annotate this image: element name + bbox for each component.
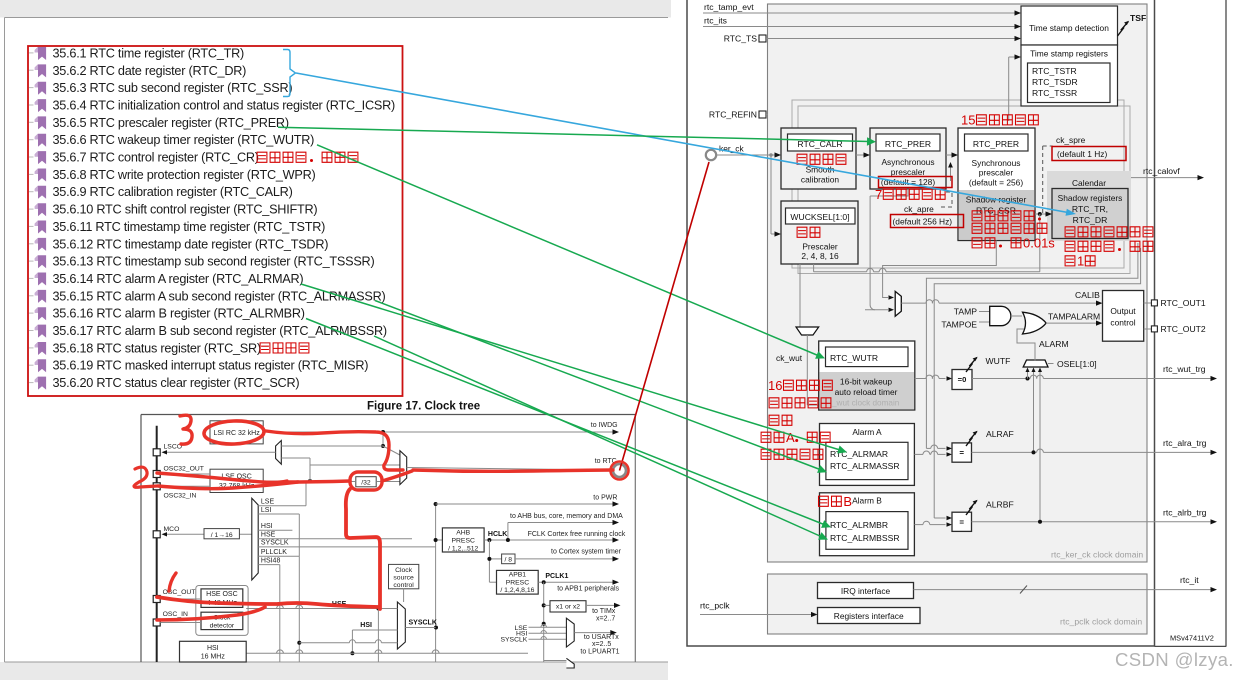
svg-text:35.6.1 RTC time register (RTC_: 35.6.1 RTC time register (RTC_TR) <box>53 46 245 60</box>
red note 比秒更精确的 <box>972 223 1047 233</box>
svg-text:MSv47411V2: MSv47411V2 <box>1170 634 1214 643</box>
wut clock mux <box>895 291 901 316</box>
wire HSI into mux <box>299 630 397 655</box>
wire to PWR <box>436 495 619 507</box>
red note 16位唤醒自 <box>768 378 832 393</box>
LSE OSC box <box>210 469 263 492</box>
RTC_TSTR/TSDR/TSSR box <box>1028 63 1111 103</box>
signal rtc_tamp_evt <box>703 2 1021 16</box>
label to IWDG <box>591 422 618 429</box>
svg-text:=0: =0 <box>958 375 967 384</box>
bookmark icon row 5 <box>29 116 46 129</box>
svg-text:OSEL[1:0]: OSEL[1:0] <box>1057 359 1097 369</box>
bookmark icon row 15 <box>29 290 46 303</box>
MCO mux <box>252 498 258 580</box>
svg-text:to PWR: to PWR <box>593 495 617 502</box>
svg-text:ALRBF: ALRBF <box>986 500 1014 510</box>
list row 1 text <box>53 46 245 60</box>
red trace LSE horizontal <box>413 470 613 471</box>
label to RTC <box>595 458 617 465</box>
svg-text:35.6.10 RTC shift control regi: 35.6.10 RTC shift control register (RTC_… <box>53 203 318 217</box>
USART mux <box>566 618 574 647</box>
svg-text:35.6.7 RTC control register (R: 35.6.7 RTC control register (RTC_CR) <box>53 151 259 165</box>
list row 16 text <box>53 307 305 321</box>
pin label OSC_OUT <box>163 589 196 596</box>
OSEL mux <box>1023 359 1096 369</box>
svg-text:35.6.13 RTC timestamp sub seco: 35.6.13 RTC timestamp sub second registe… <box>53 255 375 269</box>
svg-text:to AHB bus, core, memory and D: to AHB bus, core, memory and DMA <box>510 513 623 520</box>
block RTC_PRER async prescaler <box>870 128 946 189</box>
bookmark icon row 16 <box>29 307 46 320</box>
svg-text:rtc_its: rtc_its <box>704 16 727 26</box>
ALRAF flag <box>966 429 1014 446</box>
red note 间和日期，精确 <box>1065 241 1153 251</box>
svg-text:35.6.18 RTC status register (R: 35.6.18 RTC status register (RTC_SR) <box>53 341 261 355</box>
svg-text:Calendar: Calendar <box>1072 178 1106 188</box>
wire LSCO output <box>162 450 276 454</box>
wire calr to async <box>856 152 870 157</box>
list row 14 text <box>53 272 304 286</box>
red trace LSI to RTC <box>266 431 403 470</box>
dashed ck_apre tap <box>938 192 952 207</box>
wire csc to sysclk mux <box>403 589 405 602</box>
red note 闹钟B <box>819 494 853 509</box>
wire HCLK/FCLK <box>484 537 619 542</box>
svg-text:HSI: HSI <box>360 622 372 629</box>
svg-text:16-bit wakeup: 16-bit wakeup <box>840 377 892 387</box>
svg-text:ck_spre: ck_spre <box>1056 135 1086 145</box>
svg-text:Registers interface: Registers interface <box>834 611 904 621</box>
svg-text:35.6.16 RTC alarm B register (: 35.6.16 RTC alarm B register (RTC_ALRMBR… <box>53 307 305 321</box>
svg-text:Prescaler: Prescaler <box>802 242 838 252</box>
green line to RTC_ALRMBR <box>306 319 831 528</box>
wire LSI branch down <box>381 432 400 455</box>
wire LSE output <box>263 465 400 483</box>
red handwritten 3 <box>180 415 192 444</box>
svg-text:RTC_WUTR: RTC_WUTR <box>830 353 878 363</box>
/1-16 box <box>162 529 252 540</box>
svg-text:35.6.4 RTC initialization cont: 35.6.4 RTC initialization control and st… <box>53 99 395 113</box>
wire PCLK1 <box>538 580 619 585</box>
svg-text:HSE: HSE <box>261 532 276 539</box>
RTC mux <box>400 451 407 485</box>
calendar sub-box outline 1 <box>792 100 1124 268</box>
svg-text:TSF: TSF <box>1130 13 1146 23</box>
RTC figure outer frame <box>687 0 1155 646</box>
red note 数据，如0.01s <box>972 236 1055 251</box>
cyan line to shadow registers <box>296 73 1076 216</box>
svg-text:16 MHz: 16 MHz <box>201 654 226 661</box>
svg-text:LSI: LSI <box>261 507 272 514</box>
svg-text:RTC_DR: RTC_DR <box>1073 215 1108 225</box>
blue callout bracket rows 1-3 <box>283 50 296 97</box>
red trace to RTC circle ring <box>611 462 629 480</box>
svg-text:35.6.8 RTC write protection re: 35.6.8 RTC write protection register (RT… <box>53 168 316 182</box>
svg-text:auto reload timer: auto reload timer <box>835 387 898 397</box>
label PCLK1 bold <box>545 573 568 580</box>
AHB PRESC box <box>434 528 485 552</box>
svg-text:LSI RC 32 kHz: LSI RC 32 kHz <box>213 430 260 437</box>
list row 5 text <box>53 116 289 130</box>
wire LSI to IWDG <box>263 429 619 434</box>
pin label OSC_IN <box>163 611 188 618</box>
OR gate TAMPALARM <box>1023 312 1047 334</box>
list row 8 text <box>53 168 316 182</box>
svg-text:0.01s: 0.01s <box>1023 236 1055 251</box>
svg-text:rtc_it: rtc_it <box>1180 575 1199 585</box>
svg-text:APB1: APB1 <box>509 571 527 578</box>
svg-text:TAMPALARM: TAMPALARM <box>1048 312 1100 322</box>
green line to RTC_WUTR <box>317 145 825 359</box>
bookmark icon row 9 <box>29 186 46 199</box>
svg-text:to APB1 peripherals: to APB1 peripherals <box>557 586 619 593</box>
HSE OSC box <box>201 589 243 608</box>
pin OSC_IN <box>153 619 160 626</box>
wire sync to shadow <box>1035 211 1052 216</box>
svg-text:35.6.15 RTC alarm A sub second: 35.6.15 RTC alarm A sub second register … <box>53 289 386 303</box>
svg-text:ALRAF: ALRAF <box>986 429 1014 439</box>
svg-text:35.6.9 RTC calibration registe: 35.6.9 RTC calibration register (RTC_CAL… <box>53 185 293 199</box>
pin label OSC32_OUT <box>164 466 204 473</box>
MCO mux input LSI <box>258 507 299 514</box>
red trace OSC_OUT HSE <box>157 597 379 607</box>
signal rtc_pclk <box>700 601 818 618</box>
svg-text:x=2..5: x=2..5 <box>592 641 611 648</box>
svg-text:HSI: HSI <box>261 523 273 530</box>
WUTF flag <box>966 356 1010 372</box>
wire OSC32 pins to LSE OSC <box>160 474 210 486</box>
svg-text:7: 7 <box>875 187 882 202</box>
block WUCKSEL prescaler <box>781 201 858 264</box>
clock tree frame <box>141 415 635 663</box>
bookmark icon row 18 <box>29 342 46 355</box>
bookmark icon row 20 <box>29 377 46 390</box>
svg-text:HSI48: HSI48 <box>261 557 281 564</box>
svg-text:CALIB: CALIB <box>1075 290 1100 300</box>
label to TIMx <box>592 608 616 623</box>
red line ker_ck to clock tree <box>620 162 710 471</box>
APB1 PRESC box <box>489 570 538 594</box>
svg-text:Figure 17. Clock tree: Figure 17. Clock tree <box>367 401 480 413</box>
wire to RTC <box>407 468 611 471</box>
block RTC_CALR smooth calibration <box>781 128 856 189</box>
red note 时器 <box>769 415 792 425</box>
wire alrb_trg <box>972 508 1218 525</box>
wire TAMPALARM <box>1046 312 1103 326</box>
wire wucksel ck line <box>814 189 1040 312</box>
HSI 16MHz box <box>180 641 247 662</box>
svg-text:=: = <box>959 518 964 527</box>
label ck_wut <box>776 353 803 363</box>
ker_ck node <box>706 144 745 161</box>
wire sysclk mux output <box>405 627 435 629</box>
register list red border box <box>28 46 403 396</box>
dashed ck_spre tap <box>1043 146 1053 214</box>
svg-text:prescaler: prescaler <box>891 167 926 177</box>
wire LSE to LSCO mux <box>281 458 310 481</box>
red annotation row 7 <box>257 152 358 162</box>
pin OSC32_OUT <box>153 471 160 478</box>
label SYSCLK bold <box>409 620 437 627</box>
red note 分频 <box>797 227 820 237</box>
page right border <box>1155 0 1227 647</box>
svg-text:RTC_TSSR: RTC_TSSR <box>1032 88 1077 98</box>
usart sel label SYSCLK <box>500 636 566 643</box>
wire ALARM <box>1017 329 1069 361</box>
svg-text:2, 4, 8, 16: 2, 4, 8, 16 <box>801 251 839 261</box>
block Registers interface <box>818 608 921 624</box>
bookmark icon row 6 <box>29 134 46 147</box>
svg-text:RTC_TSTR: RTC_TSTR <box>1032 66 1077 76</box>
green line to RTC_ALRMBSSR <box>374 336 828 540</box>
red note 7位异步分频 <box>875 187 945 202</box>
list row 9 text <box>53 185 293 199</box>
svg-text:ck_wut: ck_wut <box>776 353 803 363</box>
signal rtc_its <box>703 16 1021 30</box>
time stamp registers box <box>1021 45 1118 106</box>
svg-text:rtc_pclk clock domain: rtc_pclk clock domain <box>1060 617 1142 627</box>
svg-text:35.6.14 RTC alarm A register (: 35.6.14 RTC alarm A register (RTC_ALRMAR… <box>53 272 304 286</box>
pin RTC_TS <box>724 34 1021 44</box>
wire ck_spre to wut mux <box>883 241 997 300</box>
pin RTC_OUT2 <box>1144 324 1206 334</box>
svg-text:PLLCLK: PLLCLK <box>261 549 287 556</box>
wire async to sync <box>946 152 958 157</box>
list row 18 text <box>53 341 261 355</box>
svg-text:35.6.20 RTC status clear regis: 35.6.20 RTC status clear register (RTC_S… <box>53 376 300 390</box>
wire rtc_calovf <box>1131 166 1204 180</box>
AND gate TAMP <box>941 306 1022 329</box>
svg-text:/ 1,2,..512: / 1,2,..512 <box>448 545 478 552</box>
calib feedback arrow <box>948 162 953 181</box>
svg-text:A: A <box>786 430 795 445</box>
window chrome gray bottom bar <box>0 662 668 680</box>
red box default 128 <box>879 177 953 188</box>
svg-text:to USARTx: to USARTx <box>584 634 619 641</box>
svg-text:WUTF: WUTF <box>986 356 1011 366</box>
svg-text:35.6.19 RTC masked interrupt s: 35.6.19 RTC masked interrupt status regi… <box>53 359 369 373</box>
label ck_spre <box>1056 135 1086 145</box>
red trace OSC32_OUT <box>157 473 287 482</box>
svg-text:to LPUART1: to LPUART1 <box>580 649 619 656</box>
HSE group box <box>196 586 248 636</box>
bookmark icon row 11 <box>29 221 46 234</box>
wire alra_trg <box>972 438 1218 455</box>
to RTC node circle <box>613 464 626 477</box>
MCO mux input LSE <box>258 499 306 506</box>
bookmark icon row 14 <box>29 273 46 286</box>
svg-text:TAMPOE: TAMPOE <box>941 320 977 330</box>
bookmark icon row 10 <box>29 203 46 216</box>
svg-text:(default 1 Hz): (default 1 Hz) <box>1057 149 1107 159</box>
wire ker_ck branch to WUCKSEL <box>771 155 781 237</box>
svg-text:control: control <box>1110 318 1135 328</box>
list row 3 text <box>53 81 293 95</box>
wire SYSCLK rail <box>434 502 438 662</box>
svg-text:Synchronous: Synchronous <box>972 158 1021 168</box>
list row 11 text <box>53 220 326 234</box>
green line to RTC_PRER <box>278 127 876 146</box>
bookmark icon row 4 <box>29 99 46 112</box>
green line to RTC_ALRMAR <box>301 284 847 454</box>
svg-text:Alarm A: Alarm A <box>852 427 882 437</box>
svg-text:SYSCLK: SYSCLK <box>500 636 527 643</box>
wire wucksel out to mux <box>799 264 801 327</box>
clock tree main pin rail <box>156 426 158 662</box>
svg-text:35.6.6 RTC wakeup timer regist: 35.6.6 RTC wakeup timer register (RTC_WU… <box>53 133 315 147</box>
wire LSE vertical <box>305 481 307 506</box>
svg-text:CSDN @lzya.: CSDN @lzya. <box>1115 649 1234 670</box>
svg-text:ck_apre: ck_apre <box>904 204 934 214</box>
list row 6 text <box>53 133 315 147</box>
rtc_pclk clock domain box <box>768 574 1148 634</box>
red trace OSC32_IN <box>158 482 298 489</box>
svg-text:RTC_ALRMBR: RTC_ALRMBR <box>830 520 888 530</box>
svg-text:PRESC: PRESC <box>506 579 530 586</box>
wire PCLK rail <box>542 582 546 662</box>
window chrome gray top bar <box>0 0 671 18</box>
red handwritten 1 <box>169 573 176 591</box>
OSEL input arrows <box>1026 368 1043 522</box>
pin LSCO <box>153 449 160 456</box>
block Alarm A <box>820 424 915 486</box>
svg-text:TAMP: TAMP <box>954 307 978 317</box>
svg-text:LSCO: LSCO <box>164 444 183 451</box>
svg-text:(default 256 Hz): (default 256 Hz) <box>893 217 953 227</box>
TSF flag <box>1118 13 1147 36</box>
list row 15 text <box>53 289 386 303</box>
wire to USARTx <box>574 630 619 656</box>
wire into timestamp registers <box>1009 54 1021 121</box>
red box default 256 Hz <box>891 215 964 228</box>
pin RTC_OUT1 <box>1144 298 1206 308</box>
svg-text:source: source <box>393 574 414 581</box>
wire LSI to LSCO mux <box>281 445 383 447</box>
red annotation row 18 <box>260 343 309 353</box>
bookmark icon row 8 <box>29 169 46 182</box>
list row 13 text <box>53 255 375 269</box>
ALRBF flag <box>966 500 1014 516</box>
svg-text:rtc_alra_trg: rtc_alra_trg <box>1163 438 1207 448</box>
label FCLK <box>528 531 626 538</box>
svg-text:x=2..7: x=2..7 <box>596 616 615 623</box>
funnel mux under wucksel <box>796 327 819 405</box>
pin label OSC32_IN <box>164 492 197 499</box>
MCO mux input HSI <box>258 523 292 530</box>
svg-text:ALARM: ALARM <box>1039 339 1069 349</box>
label HCLK bold <box>488 531 507 538</box>
svg-text:RTC_TSDR: RTC_TSDR <box>1032 77 1078 87</box>
svg-text:to IWDG: to IWDG <box>591 422 618 429</box>
svg-text:OSC32_OUT: OSC32_OUT <box>164 466 204 473</box>
svg-text:RTC_PRER: RTC_PRER <box>885 139 931 149</box>
wire to AHB bus <box>508 513 623 540</box>
block Alarm B <box>820 493 915 556</box>
MCO mux input HSE <box>258 532 412 539</box>
svg-text:Shadow registers: Shadow registers <box>1058 193 1123 203</box>
red note 存储了亚秒， <box>972 211 1041 221</box>
usart sel label LSE <box>514 625 566 632</box>
svg-text:(default = 256): (default = 256) <box>969 178 1023 188</box>
svg-text:x1 or x2: x1 or x2 <box>556 604 580 611</box>
svg-text:Asynchronous: Asynchronous <box>881 157 934 167</box>
wire HSI box output <box>246 650 528 653</box>
red trace HSE up to /32 <box>346 489 380 609</box>
bookmark icon row 19 <box>29 359 46 372</box>
x1 or x2 box <box>544 601 621 612</box>
svg-text:calibration: calibration <box>801 175 840 185</box>
svg-text:Time stamp detection: Time stamp detection <box>1029 23 1109 33</box>
calendar sub-box outline 2 <box>798 106 1130 274</box>
green line to RTC_ALRMASSR <box>375 301 827 473</box>
usart sel label HSI <box>516 631 566 638</box>
PDF page border <box>5 18 669 663</box>
list row 12 text <box>53 237 329 251</box>
block RTC_PRER sync prescaler <box>958 128 1035 241</box>
svg-text:/ 1,2,4,8,16: / 1,2,4,8,16 <box>500 587 534 594</box>
MCO mux input SYSCLK <box>258 540 435 547</box>
svg-text:RTC_ALRMASSR: RTC_ALRMASSR <box>830 461 900 471</box>
svg-text:(default = 128): (default = 128) <box>881 177 935 187</box>
pin OSC32_IN <box>153 483 160 490</box>
wire rtc_it <box>914 575 1218 594</box>
clock detector box <box>201 612 243 629</box>
svg-text:_wut clock domain: _wut clock domain <box>831 399 900 408</box>
pin MCO <box>153 531 160 538</box>
wire ker_ck <box>716 152 781 157</box>
SYSCLK mux <box>397 602 405 649</box>
svg-text:RTC_TR,: RTC_TR, <box>1072 204 1108 214</box>
bookmark icon row 3 <box>29 82 46 95</box>
svg-text:rtc_alrb_trg: rtc_alrb_trg <box>1163 508 1207 518</box>
svg-text:15: 15 <box>961 113 975 128</box>
output control box <box>1103 291 1144 342</box>
rtc_ker_ck clock domain box <box>768 4 1148 562</box>
label to APB1 peripherals <box>557 586 619 593</box>
time stamp detection box <box>1021 6 1118 45</box>
svg-text:control: control <box>393 582 414 589</box>
svg-text:prescaler: prescaler <box>979 168 1014 178</box>
red ellipse around LSI RC <box>204 420 265 445</box>
bookmark icon row 12 <box>29 238 46 251</box>
svg-text:35.6.3 RTC sub second register: 35.6.3 RTC sub second register (RTC_SSR) <box>53 81 293 95</box>
svg-text:rtc_tamp_evt: rtc_tamp_evt <box>704 2 754 12</box>
red note 15位同步分频 <box>961 113 1038 128</box>
label MSv47411V2 <box>1170 634 1214 643</box>
svg-text:LSE: LSE <box>261 499 275 506</box>
svg-text:16: 16 <box>768 378 782 393</box>
svg-text:RTC_REFIN: RTC_REFIN <box>709 110 757 120</box>
svg-text:B: B <box>843 494 852 509</box>
svg-text:RTC_PRER: RTC_PRER <box>973 139 1019 149</box>
bookmark icon row 1 <box>29 47 46 60</box>
svg-text:Output: Output <box>1110 306 1136 316</box>
svg-text:Clock: Clock <box>395 567 413 574</box>
/32 box <box>356 477 376 487</box>
wire OSC pins <box>160 599 201 623</box>
list row 4 text <box>53 99 395 113</box>
red ring around /32 <box>350 472 382 490</box>
list row 20 text <box>53 376 300 390</box>
wire HSE vertical down <box>377 609 379 663</box>
svg-text:=: = <box>959 448 964 457</box>
svg-text:WUCKSEL[1:0]: WUCKSEL[1:0] <box>790 212 849 222</box>
red trace LSE to mux <box>285 481 350 482</box>
wire HSE into mux <box>246 605 397 610</box>
comparator B <box>914 248 1140 531</box>
bookmark icon row 17 <box>29 325 46 338</box>
svg-text:/ 1→16: / 1→16 <box>211 532 233 539</box>
